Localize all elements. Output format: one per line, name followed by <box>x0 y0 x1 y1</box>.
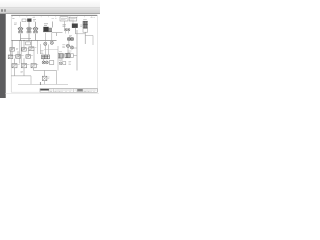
wire H3 drop <box>45 33 52 55</box>
wire N1 drop <box>64 21 66 28</box>
node junction dots <box>20 39 29 42</box>
wire N2 drop <box>72 21 74 24</box>
terminal block X4b <box>65 53 70 57</box>
lamp H1 <box>64 28 67 31</box>
node feeder label text <box>14 23 17 25</box>
wire H5 drop <box>68 41 77 54</box>
node text group left-center <box>41 51 44 54</box>
node text left of H5 <box>62 45 65 48</box>
wire shelf left drop <box>44 71 46 77</box>
relay K5 <box>22 48 26 52</box>
wire feeder 1 drop <box>20 22 22 27</box>
relay K12 <box>21 64 26 68</box>
node distribution box X1 <box>26 42 31 45</box>
node text row3 labels <box>18 63 39 65</box>
node note box N2 <box>69 17 77 21</box>
rectifier G1 <box>49 28 52 31</box>
wire M1 to bus <box>20 34 22 41</box>
node text between X4 <box>59 55 65 60</box>
lamp H6 <box>42 61 45 64</box>
node text above M2 box <box>33 16 36 18</box>
wire frame bottom border <box>11 91 40 93</box>
node text near P meters <box>69 35 72 36</box>
contact K2 <box>27 31 31 33</box>
lamp H4 <box>50 41 53 44</box>
page bottom shadow line <box>6 93 100 95</box>
wire main riser <box>76 30 78 71</box>
node text right of K10 <box>80 25 82 26</box>
motor M2 <box>26 27 31 31</box>
wire T1 up lead <box>52 22 54 28</box>
title block dark cell <box>77 89 82 92</box>
node note box N1 text <box>61 18 67 20</box>
node text above bus2 <box>21 72 24 73</box>
wire bus to K5 <box>23 40 25 47</box>
wire K5 to K8 <box>17 51 19 55</box>
wire riser center <box>20 40 21 63</box>
relay K4 <box>10 48 15 52</box>
wire X3 to H6 <box>43 59 45 61</box>
toolbar icon forward <box>4 9 6 12</box>
window toolbar <box>0 8 100 14</box>
wire bus2 <box>11 75 31 77</box>
node X2 lower box <box>83 29 88 33</box>
wire X4 to S1 <box>61 58 63 61</box>
wire K13 to shelf <box>33 68 35 71</box>
node sheet number text <box>91 17 95 19</box>
title block outline <box>40 89 97 93</box>
wire frame right border <box>96 15 98 92</box>
node T1 label text <box>44 24 48 26</box>
heater E1 <box>42 76 47 80</box>
wire K10 to X2 link <box>76 33 86 35</box>
relay K10 body <box>72 24 78 28</box>
node aux box A1 <box>49 61 53 65</box>
node phase text <box>33 20 36 22</box>
motor M3 <box>33 27 38 31</box>
node text row1 labels <box>16 48 36 50</box>
wire bottom bus <box>18 83 68 85</box>
wire K10 drop <box>75 28 77 34</box>
title block cell dividers <box>49 89 94 93</box>
node text above X2 <box>83 19 87 21</box>
lamp H2 <box>67 28 70 31</box>
wire K6 to K9 <box>27 51 29 55</box>
meter P1 <box>67 37 70 40</box>
wire K4 to K7 <box>10 51 12 55</box>
contact K1 <box>19 31 23 33</box>
wire frame top border <box>11 14 97 16</box>
window title bar <box>0 0 100 8</box>
title block revision bar <box>40 89 49 91</box>
lamp H5 <box>66 44 70 47</box>
lamp H7 <box>45 61 48 64</box>
wire K13 riser <box>33 51 35 64</box>
wire X2 drop <box>84 32 86 44</box>
wire K9 to K12 <box>23 58 25 63</box>
node text above E1 <box>48 77 50 78</box>
node M2 label box <box>27 19 31 22</box>
wire K7 to K11 <box>14 59 16 64</box>
wire X4 ext to riser <box>73 55 77 57</box>
motor M1 <box>18 27 23 31</box>
wire supply bus L1 <box>12 39 57 41</box>
wire row K12 to bus2 <box>23 68 25 76</box>
wire K4 second leg <box>11 51 13 55</box>
relay K9 <box>26 55 31 59</box>
toolbar icon back <box>1 9 3 12</box>
wire bus to K6 <box>30 40 32 47</box>
node text left of K10 <box>63 25 67 26</box>
terminal block X4a <box>58 54 63 58</box>
wire M2 to bus <box>28 34 30 41</box>
wire frame left border <box>10 15 12 92</box>
wire M3 to bus <box>35 34 37 41</box>
wire mid shelf <box>34 70 57 72</box>
wire shelf right drop <box>56 71 58 85</box>
relay K11 <box>12 64 17 68</box>
wire H1 H2 drops <box>66 31 69 34</box>
switch S1 group <box>59 62 71 65</box>
node text row2 labels <box>13 54 32 56</box>
node zone ruler marks <box>12 16 96 18</box>
wire motor tie <box>21 38 32 40</box>
title block text marks <box>50 90 97 91</box>
transformer T1 <box>44 27 49 32</box>
meter P3 <box>70 46 73 49</box>
wire X2 branch right <box>85 36 93 46</box>
node X4 side box <box>71 54 74 58</box>
node bottom mark <box>39 82 41 85</box>
contact K3 <box>34 31 38 33</box>
relay K8 <box>16 55 21 59</box>
wire T1 output <box>52 33 63 36</box>
node text above X4 <box>59 51 72 52</box>
wire mid riser x40 <box>39 44 41 54</box>
window sidebar panel <box>0 14 6 98</box>
wire T1 baseline <box>43 31 52 33</box>
wire row K11 to bus2 <box>14 68 16 76</box>
relay K13 <box>31 64 36 68</box>
wire E1 drop <box>44 81 46 85</box>
node note box N2 text <box>70 19 76 20</box>
wire bus2 drop <box>30 76 32 85</box>
node sheet label <box>12 17 14 19</box>
terminal block X3 <box>42 55 50 59</box>
relay K6 <box>29 47 34 51</box>
wire feeder 2 drop <box>28 22 30 27</box>
terminal strip X2 <box>83 21 88 28</box>
wire right column riser <box>37 40 39 54</box>
meter P2 <box>71 37 74 40</box>
node note box N1 <box>60 17 68 21</box>
wire feeder 3 drop <box>35 22 37 27</box>
relay K7 <box>8 55 13 59</box>
node M1 label box <box>22 19 26 22</box>
wire center riser <box>57 46 59 71</box>
node zone text <box>52 18 57 20</box>
wire bus to K4 <box>11 40 13 47</box>
wire center shelf upper <box>44 48 58 50</box>
lamp H3 <box>44 42 47 45</box>
